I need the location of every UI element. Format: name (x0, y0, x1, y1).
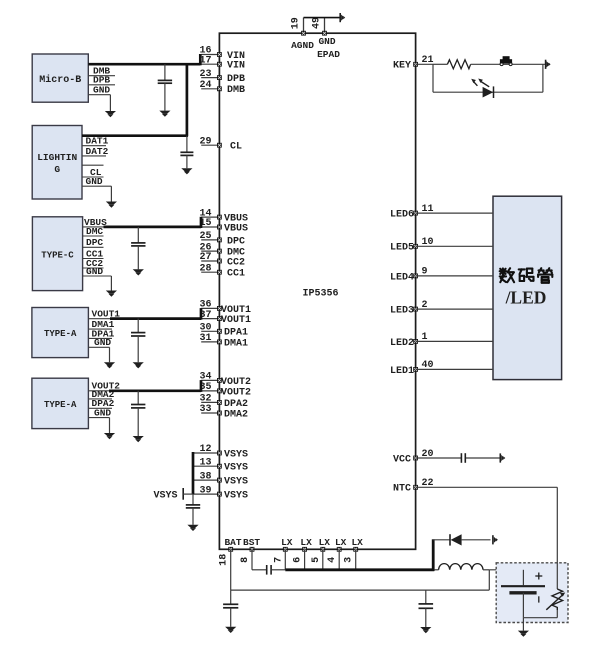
pin 14 VBUS (left) (199, 208, 248, 224)
connector J3 TYPE-C (32, 217, 82, 291)
pin 40 LED1 (right) (390, 360, 434, 377)
wire VOUT1 thick (110, 317, 201, 320)
svg-text:BST: BST (243, 537, 260, 548)
svg-text:18: 18 (219, 554, 230, 566)
wire LED5 to display (416, 245, 493, 247)
label GND stub J3 (83, 276, 112, 291)
svg-text:DAT2: DAT2 (86, 146, 109, 157)
label VOUT2 stub (88, 381, 120, 392)
svg-text:28: 28 (199, 263, 211, 274)
svg-text:GND: GND (93, 85, 110, 96)
pin 7 LX (bottom) (273, 547, 287, 563)
label DPA2 stub (88, 398, 114, 409)
svg-text:TYPE-C: TYPE-C (41, 250, 74, 260)
label DMA2 stub (88, 389, 114, 400)
capacitor C9 on BAT (223, 590, 238, 633)
wire LED3 to display (416, 308, 493, 310)
pin 21 KEY (right) (393, 55, 434, 72)
svg-text:LED4: LED4 (390, 272, 414, 283)
label DAT1 stub (82, 136, 109, 147)
block 数码管/LED display (493, 196, 562, 379)
wire KEY pin to junction (416, 63, 433, 65)
pin 5 LX (bottom) (311, 547, 325, 563)
ground battery (518, 631, 529, 637)
wire VOUT2 step to pin34 (200, 380, 203, 392)
wire LX stub (322, 549, 324, 570)
svg-text:LIGHTIN: LIGHTIN (37, 152, 77, 163)
label GND text J4 (94, 337, 111, 348)
svg-text:GND: GND (94, 337, 111, 348)
svg-text:VOUT2: VOUT2 (221, 377, 251, 388)
wire LX bus thick (285, 568, 434, 571)
svg-text:AGND: AGND (291, 40, 314, 51)
svg-text:DMA2: DMA2 (224, 409, 248, 420)
pin 8 BST (bottom) (240, 547, 254, 563)
pin 27 CC2 (left) (199, 252, 245, 268)
pin 4 LX (bottom) (327, 547, 341, 563)
label CC2 stub (83, 258, 104, 269)
pin 32 DPA2 (left) (199, 394, 248, 410)
thermistor RT1 NTC (546, 589, 565, 618)
diode D2 (450, 534, 491, 545)
pin 12 VSYS (left) (193, 444, 248, 460)
net port VSYS (183, 488, 193, 500)
svg-text:VCC: VCC (393, 454, 411, 465)
capacitor C8 bootstrap (267, 565, 271, 575)
ground (right-facing) at AGND tie (340, 13, 345, 22)
wire BAT rail (231, 589, 490, 591)
resistor R1 (447, 60, 470, 69)
pin 35 VOUT2 (left) (199, 382, 251, 398)
text 管 (display label) (538, 268, 552, 283)
svg-text:VSYS: VSYS (224, 477, 248, 488)
svg-text:VBUS: VBUS (224, 223, 248, 234)
pin 2 LED3 (right) (390, 300, 428, 317)
connector J2 LIGHTING (32, 126, 82, 200)
label CC1 stub (83, 248, 104, 259)
svg-text:IP5356: IP5356 (302, 288, 338, 299)
wire KEY right vertical (542, 64, 544, 92)
label CL stub (82, 167, 104, 178)
pin 36 VOUT1 (left) (199, 300, 251, 316)
wire VBUS step to pin14 (200, 217, 203, 228)
label LX (281, 537, 293, 548)
svg-text:CC1: CC1 (227, 269, 245, 280)
push button SW1 (499, 56, 513, 65)
svg-text:LED3: LED3 (390, 306, 414, 317)
ground (right-facing) diode (493, 535, 498, 544)
svg-text:38: 38 (199, 471, 211, 482)
pin 37 VOUT1 (left) (199, 310, 251, 326)
text /LED (505, 288, 547, 308)
inductor L1 (434, 564, 489, 570)
capacitor C5 on VOUT2 (131, 391, 145, 442)
svg-text:7: 7 (273, 557, 284, 563)
svg-text:23: 23 (199, 69, 211, 80)
label GND text J1 (93, 85, 110, 96)
svg-text:DPA2: DPA2 (224, 399, 248, 410)
capacitor C1 on VIN (158, 64, 172, 117)
svg-text:GND: GND (318, 36, 335, 47)
svg-text:VOUT1: VOUT1 (221, 315, 251, 326)
label BAT (224, 537, 241, 548)
label GND stub J4 (88, 347, 109, 362)
label DPC stub (83, 237, 104, 248)
label GND stub J2 (82, 186, 111, 201)
label LX (319, 537, 331, 548)
svg-text:Micro-B: Micro-B (39, 74, 81, 86)
connector J1 Micro-B (32, 54, 88, 102)
wire KEY junction vertical (432, 64, 434, 92)
svg-text:GND: GND (86, 266, 103, 277)
svg-text:LX: LX (351, 537, 363, 548)
pin 33 DMA2 (left) (199, 404, 248, 420)
svg-text:DPC: DPC (86, 237, 103, 248)
label LX (300, 537, 312, 548)
pin 22 NTC (right) (393, 478, 434, 495)
pin 16 VIN (left) (199, 46, 245, 62)
label LX (351, 537, 363, 548)
wire capacitor to LX bus (271, 569, 285, 571)
label DPA1 stub (88, 328, 114, 339)
pin 39 VSYS (left) (193, 485, 248, 501)
label LX (335, 537, 347, 548)
capacitor C6 on VSYS (186, 494, 200, 531)
pin 10 LED5 (right) (390, 237, 434, 254)
svg-text:LED5: LED5 (390, 243, 414, 254)
svg-text:DPC: DPC (227, 236, 245, 247)
label GND stub J5 (88, 418, 109, 433)
wire BAT stub down (230, 549, 232, 590)
svg-text:KEY: KEY (393, 61, 411, 72)
pin 31 DMA1 (left) (199, 333, 248, 349)
pin 11 LED6 (right) (390, 204, 434, 221)
svg-text:LX: LX (319, 537, 331, 548)
wire inductor to BAT rail (488, 570, 490, 590)
wire BST stub down (251, 549, 253, 570)
label GND text J3 (86, 266, 103, 277)
connector J4 TYPE-A (32, 308, 89, 358)
svg-text:GND: GND (86, 176, 103, 187)
capacitor C10 on BAT (419, 590, 434, 633)
label DMB stub (88, 66, 115, 77)
wire to diode (433, 539, 449, 541)
svg-text:LX: LX (335, 537, 347, 548)
wire KEY bottom branch (433, 91, 543, 93)
pin 17 VIN (left) (199, 55, 245, 71)
svg-text:VOUT2: VOUT2 (221, 387, 251, 398)
label DPB stub (88, 75, 115, 86)
wire LED6 to display (416, 212, 493, 214)
wire battery ground drop (522, 618, 524, 631)
pin 24 DMB (left) (199, 80, 245, 96)
svg-text:CC2: CC2 (227, 257, 245, 268)
pin 18 BAT (bottom) (219, 547, 233, 566)
svg-text:6: 6 (293, 557, 304, 563)
ground J3 (106, 291, 117, 297)
pin 25 DPC (left) (199, 231, 245, 247)
ground J5 (104, 433, 115, 439)
wire VIN vertical to LIGHTING (186, 64, 189, 136)
svg-text:5: 5 (311, 557, 322, 563)
wire LED1 to display (416, 368, 493, 370)
wire LX stub (355, 549, 357, 570)
connector J5 TYPE-A (32, 378, 89, 428)
label GND stub J1 (88, 95, 110, 111)
svg-text:/LED: /LED (505, 288, 547, 308)
wire KEY to resistor (433, 63, 447, 65)
label GND text J5 (94, 408, 111, 419)
text 数 (display label) (500, 268, 514, 282)
svg-text:12: 12 (199, 444, 211, 455)
pin 19 AGND (top) (291, 17, 315, 51)
ground (right-facing) VCC (500, 453, 505, 462)
wire AGND-GND tie (304, 17, 341, 19)
pin 1 LED2 (right) (390, 332, 428, 349)
svg-text:VSYS: VSYS (153, 491, 177, 502)
svg-text:VSYS: VSYS (224, 463, 248, 474)
pin 20 VCC (right) (393, 449, 434, 466)
capacitor C3 on VBUS (131, 227, 145, 276)
svg-text:32: 32 (199, 394, 211, 405)
svg-text:LX: LX (281, 537, 293, 548)
svg-text:DPB: DPB (227, 74, 245, 85)
ground J1 (105, 111, 116, 117)
capacitor C4 on VOUT1 (131, 319, 145, 369)
text 码 (display label) (519, 269, 534, 281)
capacitor C2 on LIGHTING row (180, 136, 193, 175)
wire LED2 to display (416, 340, 493, 342)
svg-text:VIN: VIN (227, 61, 245, 72)
pin 9 LED4 (right) (390, 267, 428, 284)
wire VOUT2 thick (109, 389, 201, 392)
wire VIN step to pin16 (199, 54, 202, 65)
wire LED4 to display (416, 275, 493, 277)
svg-text:8: 8 (240, 557, 251, 563)
svg-text:NTC: NTC (393, 484, 411, 495)
svg-text:LX: LX (300, 537, 312, 548)
svg-text:27: 27 (199, 252, 211, 263)
svg-text:CL: CL (230, 142, 242, 153)
pin 34 VOUT2 (left) (199, 372, 251, 388)
svg-text:33: 33 (199, 404, 211, 415)
wire VSYS bus thick (192, 452, 195, 494)
pin 6 LX (bottom) (293, 547, 307, 563)
svg-text:DMA1: DMA1 (224, 338, 248, 349)
svg-text:TYPE-A: TYPE-A (44, 329, 77, 339)
svg-text:4: 4 (327, 557, 338, 563)
svg-text:G: G (54, 164, 60, 175)
label GND text J2 (86, 176, 103, 187)
wire BST to capacitor (252, 569, 267, 571)
pin 38 VSYS (left) (193, 471, 248, 487)
wire resistor to button (471, 63, 499, 65)
svg-text:3: 3 (344, 557, 355, 563)
IC U1 IP5356 body (219, 33, 415, 549)
wire LIGHTING top row thick (82, 134, 188, 137)
ground J2 (106, 202, 117, 208)
svg-text:13: 13 (199, 457, 211, 468)
svg-text:GND: GND (94, 408, 111, 419)
svg-text:VSYS: VSYS (224, 491, 248, 502)
unlabeled stub J2 (82, 164, 104, 166)
label VOUT1 stub (88, 309, 120, 320)
wire battery bottom (523, 593, 557, 618)
label DMA1 stub (88, 319, 114, 330)
svg-text:39: 39 (199, 485, 211, 496)
svg-text:29: 29 (199, 136, 211, 147)
svg-text:LED2: LED2 (390, 338, 414, 349)
svg-text:EPAD: EPAD (317, 49, 340, 60)
svg-text:DMB: DMB (227, 85, 245, 96)
svg-text:19: 19 (291, 17, 302, 29)
svg-text:25: 25 (199, 231, 211, 242)
svg-text:LED6: LED6 (390, 210, 414, 221)
svg-text:LED1: LED1 (390, 366, 414, 377)
svg-text:BAT: BAT (224, 537, 241, 548)
pin 13 VSYS (left) (193, 457, 248, 473)
wire NTC net (416, 487, 558, 589)
svg-text:DPA1: DPA1 (224, 328, 248, 339)
ground J4 (104, 362, 115, 368)
svg-text:TYPE-A: TYPE-A (44, 400, 77, 410)
LED D1 (471, 79, 493, 99)
wire battery top (522, 570, 524, 585)
svg-text:DMC: DMC (86, 226, 103, 237)
wire LX stub (338, 549, 340, 570)
label VBUS stub J3 (83, 217, 108, 228)
wire VBUS thick (104, 226, 202, 229)
label VSYS (153, 491, 177, 502)
svg-text:VSYS: VSYS (224, 449, 248, 460)
wire button to ground (513, 63, 546, 65)
capacitor C7 on VCC (461, 453, 465, 463)
pin 29 CL (left) (199, 136, 242, 152)
label DMC stub (83, 226, 104, 237)
wire VCC (416, 457, 500, 459)
wire inductor into battery box (489, 569, 523, 571)
wire LX stub (284, 549, 286, 570)
battery cell BT1 (501, 573, 545, 603)
svg-text:31: 31 (199, 333, 211, 344)
svg-text:30: 30 (199, 323, 211, 334)
svg-text:24: 24 (199, 80, 211, 91)
wire LX stub (304, 549, 306, 570)
pin 15 VBUS (left) (199, 218, 248, 234)
battery box BT1 (496, 563, 568, 623)
pin 23 DPB (left) (199, 69, 245, 85)
svg-text:49: 49 (312, 17, 323, 29)
label DAT2 stub (82, 146, 109, 157)
ground (right-facing) KEY top (546, 60, 551, 69)
pin 3 LX (bottom) (344, 547, 358, 563)
pin 49 GND EPAD (top) (312, 17, 341, 60)
label BST (243, 537, 260, 548)
pin 28 CC1 (left) (199, 263, 245, 279)
wire LX riser thick (432, 539, 435, 571)
wire VIN net thick (88, 63, 200, 66)
wire VOUT1 step to pin36 (200, 308, 203, 320)
pin 26 DMC (left) (199, 242, 245, 258)
pin 30 DPA1 (left) (199, 323, 248, 339)
